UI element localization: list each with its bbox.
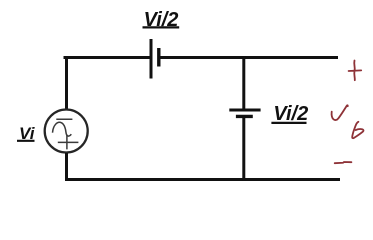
AC source sine tilde (53, 122, 72, 136)
capacitor C1 long plate (150, 39, 153, 79)
annotation red checkmark (332, 105, 348, 120)
annotation red minus (335, 162, 352, 163)
AC source plus sign (58, 135, 79, 150)
label Vi underline (17, 140, 35, 142)
AC source V1 circle (45, 110, 88, 153)
capacitor C2 short plate (236, 115, 253, 118)
AC source minus sign (56, 118, 72, 120)
annotation red letter b (352, 122, 363, 138)
wire left vertical upper segment (65, 56, 68, 110)
wire bottom horizontal (65, 178, 340, 181)
wire left vertical lower segment (65, 153, 68, 181)
annotation red plus (349, 61, 362, 81)
capacitor C1 short plate (157, 48, 160, 67)
label Vi/2 top underline (143, 26, 180, 28)
wire right vertical upper segment (242, 56, 245, 110)
label Vi/2 right underline (271, 122, 306, 124)
wire right vertical lower segment (242, 116, 245, 181)
wire top-right horizontal segment (159, 56, 338, 59)
capacitor C2 long plate (229, 109, 260, 112)
wire top-left horizontal segment (64, 56, 152, 59)
